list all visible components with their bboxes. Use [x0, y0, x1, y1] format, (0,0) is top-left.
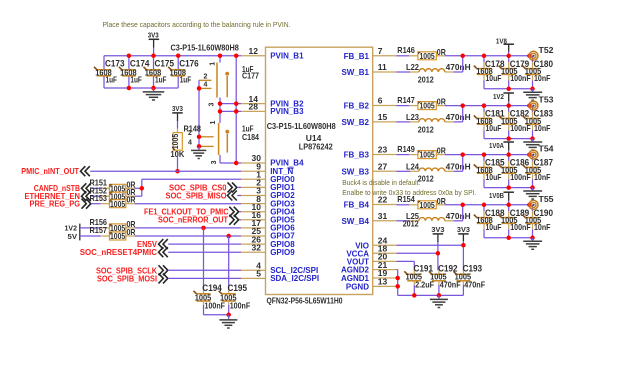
svg-text:3V3: 3V3: [148, 30, 159, 39]
svg-text:1V0B: 1V0B: [489, 191, 504, 200]
svg-text:7: 7: [378, 46, 383, 56]
svg-text:C173: C173: [105, 59, 125, 69]
IC left pin numbers: [249, 46, 262, 279]
svg-text:100nF: 100nF: [230, 300, 251, 310]
capacitor C194 1005 100nF: [194, 283, 226, 315]
resistor R154 1005 0R: [397, 194, 446, 210]
ground (buck output): [523, 188, 542, 200]
svg-text:470nH: 470nH: [446, 62, 471, 72]
capacitor C183 1005 10nF: [522, 106, 553, 139]
svg-text:2012: 2012: [418, 124, 434, 134]
svg-text:0R: 0R: [437, 196, 446, 206]
svg-text:470nH: 470nH: [446, 161, 471, 171]
wire buck output rail: [445, 204, 531, 206]
power rail tap 1V2 / 5V: [65, 224, 80, 241]
svg-text:SW_B2: SW_B2: [341, 118, 369, 127]
power 1V0A: [489, 141, 514, 155]
svg-text:5: 5: [256, 269, 261, 279]
ground (C194/C195): [219, 315, 237, 328]
label LP876242: [299, 142, 333, 152]
junction PGND: [395, 284, 400, 289]
wire buck cap ground bus: [484, 187, 533, 189]
svg-text:SOC_nRESET4PMIC: SOC_nRESET4PMIC: [80, 247, 157, 257]
power 3V3 (R148): [172, 104, 183, 129]
svg-text:R149: R149: [397, 144, 415, 154]
capacitor C186 1005 100nF: [499, 155, 531, 188]
svg-text:PGND: PGND: [346, 283, 369, 292]
svg-text:PVIN_B1: PVIN_B1: [270, 52, 304, 61]
wire buck output rail: [445, 154, 531, 156]
svg-text:10nF: 10nF: [534, 73, 551, 83]
svg-text:2012: 2012: [418, 74, 434, 84]
capacitor C189 1005 100nF: [499, 205, 531, 238]
junction dots buck rail: [460, 103, 531, 108]
svg-text:SOC_SPIB_MISO: SOC_SPIB_MISO: [166, 190, 227, 200]
junction dots analog ground bus: [412, 293, 441, 298]
svg-text:3V3: 3V3: [431, 225, 444, 234]
wire GPIO0 row: [142, 178, 241, 180]
ground (AGND/PGND): [430, 295, 448, 307]
note: enable 0x33 comment: [342, 188, 476, 197]
junction dots on PVIN buses: [127, 53, 181, 90]
power 3V3 (capacitor bank): [148, 30, 159, 55]
junction ground bus: [226, 313, 231, 318]
wire PVIN_B2 row: [220, 103, 241, 105]
capacitor C185 1608 10uF: [474, 155, 505, 188]
svg-text:27: 27: [378, 162, 388, 172]
junction R157/C195 tap: [226, 234, 231, 239]
svg-text:2: 2: [204, 74, 208, 81]
wire VCCA row: [397, 252, 438, 254]
svg-text:1V2: 1V2: [493, 92, 504, 101]
svg-text:470nH: 470nH: [446, 112, 471, 122]
wire R157 tap down to C195: [228, 236, 230, 294]
capacitor C173 1608 1uF: [94, 56, 125, 88]
svg-text:PMIC_nINT_OUT: PMIC_nINT_OUT: [21, 166, 79, 176]
wire R148 to INT_N: [177, 154, 179, 171]
power 3V3 (VCCA): [431, 225, 444, 253]
svg-text:T52: T52: [539, 45, 554, 55]
svg-text:R148: R148: [184, 124, 202, 134]
svg-text:SOC_nERROR_OUT: SOC_nERROR_OUT: [158, 215, 229, 225]
svg-text:C3-P15-1L60W80H8: C3-P15-1L60W80H8: [267, 121, 336, 131]
wire C184 shield stub: [198, 137, 200, 147]
capacitor C182 1005 100nF: [499, 106, 531, 139]
capacitor C184 1uF (3-terminal): [188, 111, 259, 164]
net ETHERNET_EN: [25, 191, 91, 201]
inductor L25 2012 470nH: [397, 211, 471, 229]
wire buck cap ground bus: [484, 138, 533, 140]
capacitor C180 1005 10nF: [522, 56, 553, 89]
net PRE_REG_PG: [30, 199, 91, 209]
net SOC_SPIB_MISO: [166, 190, 242, 200]
svg-text:C184: C184: [242, 132, 259, 142]
junction R151 tap: [140, 186, 145, 191]
svg-text:5V: 5V: [68, 232, 78, 241]
svg-text:L22: L22: [406, 62, 419, 72]
resistor R151 1005 0R: [90, 178, 136, 194]
capacitor C195 1005 100nF: [219, 283, 251, 315]
net EN5V: [137, 239, 241, 249]
junction R148/INT_N: [175, 169, 180, 174]
label U14: [306, 133, 322, 143]
wire buck output rail: [445, 55, 531, 57]
junction dots PVIN nets: [218, 53, 239, 165]
wire VCCA down to C192: [437, 253, 439, 270]
svg-text:1uF: 1uF: [180, 75, 192, 85]
svg-text:1uF: 1uF: [155, 75, 167, 85]
capacitor C188 1608 10uF: [474, 205, 505, 238]
svg-text:1005: 1005: [420, 52, 436, 61]
inductor L24 2012 470nH: [397, 161, 471, 183]
wire C177 shield to ground rail: [198, 80, 200, 137]
net SOC_SPIB_MOSI: [97, 273, 241, 283]
note: place capacitors per balancing rule: [103, 20, 291, 29]
wire L25 to output rail: [454, 205, 463, 221]
wire VIO row: [397, 244, 464, 246]
svg-text:3: 3: [211, 160, 218, 164]
IC U14 LP876242 body: [266, 47, 373, 294]
ground (buck output): [523, 238, 542, 250]
svg-text:T53: T53: [539, 95, 554, 105]
svg-text:0R: 0R: [437, 47, 446, 57]
svg-text:C174: C174: [130, 59, 150, 69]
svg-text:32: 32: [252, 242, 262, 252]
svg-text:4: 4: [204, 82, 208, 89]
capacitor C190 1005 10nF: [522, 205, 553, 238]
svg-text:PRE_REG_PG: PRE_REG_PG: [30, 199, 81, 209]
junction C184 pins 2,4: [197, 135, 202, 149]
svg-text:Place these capacitors accord: Place these capacitors according to the …: [103, 20, 291, 29]
resistor R146 1005 0R: [397, 45, 446, 61]
capacitor C193 1005 470nF: [453, 263, 485, 295]
capacitor C174 1608 1uF: [119, 56, 149, 88]
capacitor C177 1uF (3-terminal): [199, 56, 259, 107]
capacitor C191 1005 2.2uF: [404, 263, 434, 295]
svg-text:R147: R147: [397, 95, 415, 105]
IC right pin numbers: [378, 46, 388, 287]
IC right pin names: [341, 52, 370, 292]
wire PVIN_B2-B3 link: [219, 104, 221, 112]
capacitor C178 1608 10uF: [474, 56, 505, 89]
svg-text:11: 11: [378, 62, 387, 72]
svg-text:R154: R154: [397, 194, 415, 204]
svg-text:10nF: 10nF: [534, 172, 551, 182]
svg-text:3: 3: [209, 102, 216, 106]
wire INT_N row: [90, 170, 241, 172]
net CANFD_nSTB: [34, 183, 91, 193]
wire R156 to GPIO6: [135, 227, 241, 229]
svg-text:12: 12: [249, 46, 259, 56]
capacitor C187 1005 10nF: [522, 155, 553, 188]
svg-text:C3-P15-1L60W80H8: C3-P15-1L60W80H8: [171, 42, 240, 52]
svg-text:31: 31: [378, 211, 388, 221]
net SOC_nRESET4PMIC: [80, 247, 241, 257]
svg-text:1: 1: [210, 62, 217, 66]
wire R151 output: [135, 187, 142, 189]
capacitor C192 1005 470nF: [429, 263, 461, 295]
svg-text:1005: 1005: [171, 133, 180, 149]
svg-text:23: 23: [378, 145, 388, 155]
svg-text:FB_B2: FB_B2: [344, 102, 370, 111]
wire buck cap ground bus: [484, 237, 533, 239]
junction dots buck ground bus: [506, 236, 534, 241]
ground (C184 shield): [191, 146, 206, 158]
terminal T53: [529, 95, 554, 111]
junction AGND1: [395, 276, 400, 281]
net SOC_nERROR_OUT: [158, 215, 241, 225]
IC left pin stubs: [241, 56, 266, 279]
label QFN32-P56-5L65W11H0: [267, 295, 343, 305]
svg-text:Buck4 is disable in default.: Buck4 is disable in default.: [342, 178, 420, 187]
svg-text:10uF: 10uF: [486, 123, 502, 133]
svg-text:R146: R146: [397, 45, 415, 55]
svg-text:C175: C175: [155, 59, 175, 69]
wire buck output rail: [445, 105, 531, 107]
svg-text:FB_B1: FB_B1: [344, 52, 370, 61]
ground (buck output): [523, 139, 542, 151]
junction R156/C194 tap: [201, 226, 206, 231]
svg-text:10uF: 10uF: [486, 73, 502, 83]
wire L24 to output rail: [454, 155, 463, 172]
junction VIO/3V3: [461, 243, 466, 248]
svg-text:SW_B3: SW_B3: [341, 167, 369, 176]
svg-text:0R: 0R: [127, 195, 136, 205]
svg-text:28: 28: [249, 102, 259, 112]
svg-text:L24: L24: [406, 161, 419, 171]
svg-text:1005: 1005: [420, 102, 436, 111]
svg-text:FB_B3: FB_B3: [344, 151, 370, 160]
power 3V3 (VIO): [457, 225, 470, 245]
resistor R157 1005 0R: [80, 225, 136, 241]
junction dots buck rail: [460, 54, 531, 59]
svg-text:470nF: 470nF: [464, 280, 485, 290]
svg-text:10nF: 10nF: [534, 123, 551, 133]
svg-text:0R: 0R: [127, 227, 136, 237]
resistor R153 1005 0R: [90, 193, 136, 209]
junction dots buck rail: [460, 152, 531, 157]
svg-text:10nF: 10nF: [534, 222, 551, 232]
net PMIC_nINT_OUT: [21, 166, 90, 176]
wire analog ground bus: [398, 294, 464, 296]
svg-text:T55: T55: [539, 194, 554, 204]
capacitor C175 1608 1uF: [144, 56, 175, 88]
wire PVIN top bus: [104, 55, 241, 57]
terminal T55: [529, 194, 554, 210]
svg-text:2012: 2012: [403, 219, 419, 229]
svg-text:1005: 1005: [110, 200, 126, 209]
svg-text:2012: 2012: [418, 174, 434, 184]
svg-text:SW_B4: SW_B4: [341, 217, 369, 226]
terminal T54: [529, 144, 554, 160]
svg-text:SW_B1: SW_B1: [341, 68, 369, 77]
wire PVIN bypass vertical: [235, 56, 237, 163]
junction C177 pin4: [197, 86, 202, 91]
wire PVIN_B4 row: [220, 162, 241, 164]
inductor L23 2012 470nH: [397, 112, 471, 134]
resistor R156 1005 0R: [80, 217, 136, 233]
wire PVIN_B3 row: [220, 110, 241, 112]
power 1V8: [496, 36, 514, 55]
svg-text:13: 13: [378, 277, 388, 287]
wire R152 output: [135, 195, 142, 197]
svg-text:PVIN_B3: PVIN_B3: [270, 107, 304, 116]
svg-text:FB_B4: FB_B4: [344, 201, 370, 210]
svg-text:4: 4: [188, 140, 192, 147]
net SOC_SPIB_SCLK: [96, 265, 241, 275]
svg-text:0R: 0R: [437, 97, 446, 107]
resistor R149 1005 0R: [397, 144, 446, 160]
svg-text:SDA_I2C/SPI: SDA_I2C/SPI: [270, 274, 319, 283]
wire buck cap ground bus: [484, 88, 533, 90]
resistor R147 1005 0R: [397, 95, 446, 111]
junction VCCA/3V3: [436, 251, 441, 256]
svg-text:C176: C176: [179, 59, 199, 69]
power 1V0B: [489, 191, 514, 205]
wire L22 to output rail: [454, 56, 463, 72]
svg-text:0R: 0R: [437, 146, 446, 156]
svg-text:1uF: 1uF: [130, 75, 142, 85]
junction dots buck rail: [460, 203, 531, 208]
wire C194/C195 ground bus: [204, 314, 229, 316]
wire R156 tap down to C194: [203, 228, 205, 294]
wire R157 to GPIO7: [135, 235, 241, 237]
svg-text:T54: T54: [539, 144, 554, 154]
IC right pin stubs: [373, 56, 397, 287]
wire L23 to output rail: [454, 106, 463, 122]
wire VIO down to C193: [462, 245, 464, 270]
junction dots buck ground bus: [506, 87, 534, 92]
resistor R148 1005 10K: [170, 124, 201, 159]
svg-text:1005: 1005: [420, 201, 436, 210]
svg-text:GPIO9: GPIO9: [270, 248, 295, 257]
terminal T52: [529, 45, 554, 61]
svg-text:QFN32-P56-5L65W11H0: QFN32-P56-5L65W11H0: [267, 295, 343, 305]
svg-text:LP876242: LP876242: [299, 142, 333, 152]
svg-text:10uF: 10uF: [486, 172, 502, 182]
svg-text:3V3: 3V3: [457, 225, 470, 234]
svg-text:R153: R153: [90, 193, 108, 203]
svg-text:10uF: 10uF: [486, 222, 502, 232]
wire R151/R152 to GPIO0: [141, 179, 143, 196]
svg-text:3V3: 3V3: [172, 104, 183, 113]
svg-text:C177: C177: [242, 70, 259, 80]
svg-text:R157: R157: [90, 225, 108, 235]
svg-text:15: 15: [378, 112, 388, 122]
wire bank bottom bus: [104, 87, 178, 89]
svg-text:6: 6: [378, 96, 383, 106]
svg-text:SOC_SPIB_MOSI: SOC_SPIB_MOSI: [97, 273, 157, 283]
svg-text:1V0A: 1V0A: [489, 141, 504, 150]
label C3-P15-1L60W80H8 (C184 part number): [267, 121, 336, 131]
svg-text:470nH: 470nH: [446, 211, 471, 221]
capacitor C179 1005 100nF: [499, 56, 531, 89]
ground (buck output): [523, 89, 542, 101]
svg-text:1: 1: [210, 120, 217, 124]
IC left pin names: [270, 52, 319, 284]
svg-text:1uF: 1uF: [106, 75, 118, 85]
net SOC_SPIB_CS0: [169, 182, 241, 192]
capacitor C181 1608 10uF: [474, 106, 505, 139]
capacitor C176 1608 1uF: [168, 56, 199, 88]
svg-text:L23: L23: [406, 112, 419, 122]
svg-text:C195: C195: [228, 283, 248, 293]
power 1V2: [493, 92, 514, 106]
note: Buck4 disable comment: [342, 178, 420, 187]
wire AGND rows: [397, 270, 398, 296]
svg-text:1005: 1005: [420, 151, 436, 160]
label C3-P15-1L60W80H8 (C177 part number): [171, 42, 240, 52]
net FE1_CLKOUT_TO_PMIC: [144, 207, 241, 217]
wire VOUT row to C191: [397, 261, 415, 270]
inductor L22 2012 470nH: [397, 62, 471, 84]
junction dots buck ground bus: [506, 136, 534, 141]
wire R153 to GPIO3: [135, 203, 241, 205]
junction dots buck ground bus: [506, 185, 534, 190]
ground (capacitor bank): [143, 88, 165, 100]
resistor R152 1005 0R: [90, 185, 136, 201]
svg-text:1005: 1005: [110, 232, 126, 241]
